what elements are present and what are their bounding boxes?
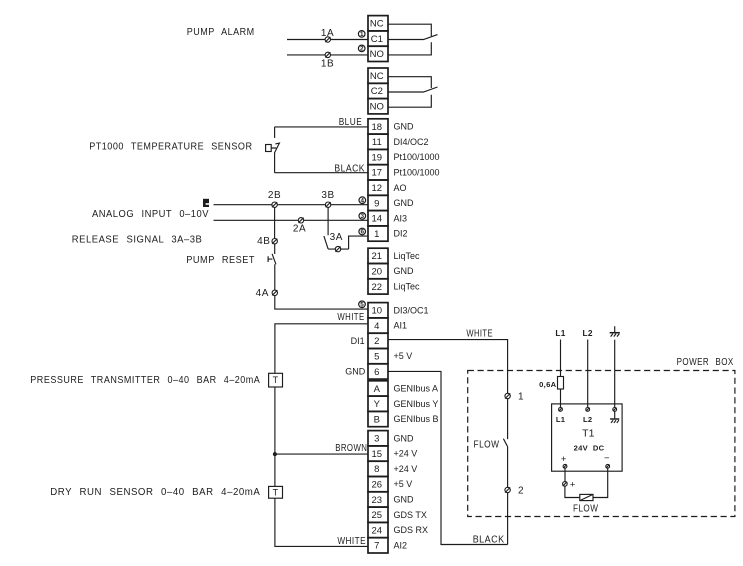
wire start marker [203, 199, 209, 207]
svg-text:4A: 4A [256, 288, 269, 299]
supply earth line [614, 340, 616, 408]
wire - to flow coil [593, 468, 608, 497]
svg-text:3: 3 [374, 434, 379, 445]
svg-text:AI1: AI1 [394, 321, 408, 331]
transformer T1 box [552, 404, 623, 471]
svg-text:20: 20 [372, 266, 383, 277]
svg-text:PUMP ALARM: PUMP ALARM [187, 27, 255, 38]
pin circle 5 [359, 301, 366, 308]
svg-text:GDS TX: GDS TX [394, 510, 427, 520]
svg-text:2A: 2A [293, 223, 306, 234]
svg-text:RELEASE SIGNAL 3A–3B: RELEASE SIGNAL 3A–3B [72, 234, 203, 245]
svg-text:AI3: AI3 [394, 213, 408, 223]
wire WHITE to terminal 7 [275, 498, 368, 546]
svg-text:+: + [570, 480, 576, 491]
svg-text:BLACK: BLACK [473, 535, 505, 546]
svg-text:GND: GND [394, 495, 415, 505]
pin circle 2 [358, 45, 365, 52]
temperature sensor contact [271, 127, 279, 173]
terminal block blockD [368, 381, 388, 427]
svg-text:1: 1 [360, 31, 364, 38]
svg-text:GND: GND [394, 122, 415, 132]
svg-text:21: 21 [372, 251, 383, 262]
junction dot [273, 452, 277, 456]
fuse 0,6A [558, 377, 564, 390]
svg-text:23: 23 [372, 495, 383, 506]
svg-text:4: 4 [374, 321, 379, 332]
wire + to flow coil [564, 468, 566, 481]
terminal block blockE [368, 431, 388, 553]
svg-text:24: 24 [372, 525, 383, 536]
svg-text:PT1000 TEMPERATURE SENSOR: PT1000 TEMPERATURE SENSOR [89, 141, 252, 152]
svg-text:C1: C1 [371, 34, 383, 45]
svg-text:FLOW: FLOW [474, 439, 500, 450]
svg-text:PUMP RESET: PUMP RESET [186, 255, 255, 266]
svg-text:LiqTec: LiqTec [394, 251, 421, 261]
svg-text:FLOW: FLOW [573, 503, 598, 514]
svg-text:BROWN: BROWN [335, 443, 367, 454]
svg-text:L1: L1 [555, 328, 565, 338]
flow sensor coil [580, 494, 593, 500]
svg-text:Pt100/1000: Pt100/1000 [394, 152, 440, 162]
svg-text:0,6A: 0,6A [539, 380, 556, 389]
svg-text:LiqTec: LiqTec [394, 282, 421, 292]
svg-text:2: 2 [374, 336, 379, 347]
supply L2 line [587, 340, 589, 408]
svg-text:9: 9 [374, 198, 379, 209]
connector 3B [325, 202, 330, 207]
wire BLACK terminal 6 loop [388, 371, 508, 544]
svg-text:2: 2 [518, 486, 524, 497]
svg-text:POWER BOX: POWER BOX [677, 357, 734, 368]
svg-text:14: 14 [372, 214, 383, 225]
svg-text:DRY RUN SENSOR 0–40 BAR 4–20mA: DRY RUN SENSOR 0–40 BAR 4–20mA [50, 487, 260, 498]
T1 input terminal L1 [559, 408, 563, 412]
svg-text:11: 11 [372, 137, 382, 148]
svg-text:GND: GND [345, 367, 366, 377]
svg-text:−: − [604, 453, 610, 464]
svg-text:NO: NO [370, 49, 384, 60]
connector 4B [272, 239, 277, 244]
svg-text:25: 25 [372, 510, 383, 521]
wire BLACK to 17 [275, 172, 368, 174]
svg-text:WHITE: WHITE [337, 536, 366, 547]
wire 2A to terminal 14 [214, 219, 369, 221]
wire WHITE to terminal 4 [275, 324, 368, 374]
svg-text:1A: 1A [321, 28, 334, 39]
svg-text:NC: NC [370, 71, 384, 82]
svg-text:BLUE: BLUE [339, 117, 363, 128]
svg-text:GENIbus A: GENIbus A [394, 384, 439, 394]
terminal block relay2 [368, 68, 388, 114]
relay contact K1 right side [388, 24, 438, 55]
svg-text:GDS RX: GDS RX [394, 525, 429, 535]
pin circle 3 [359, 213, 366, 220]
terminal block blockB [368, 248, 388, 294]
terminal block relay1 [368, 16, 388, 62]
svg-text:8: 8 [374, 464, 379, 475]
connector 2 (flow) [505, 487, 510, 492]
dry run sensor T box [269, 486, 283, 498]
svg-text:PRESSURE TRANSMITTER 0–40 BAR: PRESSURE TRANSMITTER 0–40 BAR 4–20mA [30, 375, 260, 386]
transmitter T1 box [269, 373, 283, 387]
svg-text:GND: GND [394, 266, 415, 276]
svg-text:26: 26 [372, 479, 383, 490]
svg-text:AI2: AI2 [394, 541, 408, 551]
svg-text:3A: 3A [330, 232, 343, 243]
wire WHITE terminal 2 to flow switch [388, 340, 508, 394]
supply earth symbol [611, 326, 620, 336]
svg-text:DI3/OC1: DI3/OC1 [394, 305, 429, 315]
svg-text:5: 5 [360, 302, 364, 309]
svg-text:1: 1 [518, 392, 524, 403]
svg-text:ANALOG INPUT 0–10V: ANALOG INPUT 0–10V [92, 209, 209, 220]
svg-text:4: 4 [361, 197, 365, 204]
release signal switch 3A [324, 207, 368, 249]
svg-text:NO: NO [370, 102, 384, 113]
svg-text:17: 17 [372, 168, 383, 179]
svg-text:6: 6 [360, 229, 364, 236]
svg-text:Pt100/1000: Pt100/1000 [394, 167, 440, 177]
relay contact K2 right side [388, 77, 438, 108]
connector 1B [325, 52, 330, 57]
connector 1 (flow) [505, 393, 510, 398]
svg-text:3B: 3B [321, 190, 334, 201]
power box dashed outline [468, 371, 735, 517]
svg-text:WHITE: WHITE [337, 312, 364, 323]
terminal block blockA [368, 119, 388, 241]
svg-text:19: 19 [372, 152, 383, 163]
svg-text:10: 10 [372, 306, 383, 317]
wire BLUE to 18 [275, 126, 368, 128]
svg-text:GND: GND [394, 433, 415, 443]
svg-text:DI4/OC2: DI4/OC2 [394, 137, 429, 147]
svg-text:2: 2 [360, 46, 364, 53]
wire flow switch down [507, 493, 509, 545]
connector + [563, 482, 568, 487]
svg-text:T: T [273, 375, 279, 385]
flow switch contact [503, 399, 507, 488]
pin circle 4 [359, 197, 366, 204]
svg-text:T1: T1 [582, 428, 594, 440]
svg-text:GENIbus Y: GENIbus Y [394, 399, 439, 409]
svg-text:DI2: DI2 [394, 229, 408, 239]
svg-text:+5 V: +5 V [394, 351, 413, 361]
pin circle 1 [358, 31, 365, 38]
svg-text:+24 V: +24 V [394, 464, 418, 474]
svg-text:AO: AO [394, 183, 407, 193]
svg-text:L1: L1 [556, 415, 566, 424]
wire T down [274, 387, 276, 486]
connector 2A [298, 218, 303, 223]
svg-text:B: B [374, 414, 380, 425]
wire 1B [287, 54, 368, 56]
pump reset switch [268, 244, 276, 290]
svg-text:+5 V: +5 V [394, 479, 413, 489]
supply L1 line with fuse [560, 340, 562, 408]
T1 input terminal L2 [586, 408, 590, 412]
svg-text:+24 V: +24 V [394, 449, 418, 459]
svg-text:1: 1 [374, 229, 379, 240]
wire BROWN to terminal 15 [275, 453, 368, 455]
svg-text:Y: Y [374, 399, 381, 410]
T1 earth terminal [613, 408, 617, 412]
svg-text:A: A [374, 384, 381, 395]
svg-text:BLACK: BLACK [334, 163, 365, 174]
connector 3A [335, 246, 340, 251]
svg-text:2B: 2B [268, 190, 281, 201]
connector 1A [325, 37, 330, 42]
svg-text:22: 22 [372, 282, 383, 293]
svg-text:GND: GND [394, 198, 415, 208]
svg-text:5: 5 [374, 351, 379, 362]
svg-text:15: 15 [372, 449, 383, 460]
svg-text:+: + [561, 454, 567, 465]
terminal block blockC [368, 303, 388, 379]
svg-text:C2: C2 [371, 86, 383, 97]
svg-text:L2: L2 [583, 328, 593, 338]
connector 2B [272, 202, 277, 207]
pin circle 6 [359, 228, 366, 235]
svg-text:7: 7 [374, 541, 379, 552]
svg-text:1B: 1B [321, 59, 334, 70]
svg-text:4B: 4B [257, 236, 270, 247]
svg-text:WHITE: WHITE [466, 329, 493, 340]
connector 4A [272, 290, 277, 295]
svg-text:T: T [273, 488, 279, 498]
wire 2B down / 4B [274, 207, 276, 238]
svg-text:12: 12 [372, 183, 383, 194]
svg-text:GENIbus B: GENIbus B [394, 414, 439, 424]
svg-text:L2: L2 [583, 415, 592, 424]
svg-text:3: 3 [361, 213, 365, 220]
svg-text:24V DC: 24V DC [574, 443, 605, 452]
svg-text:DI1: DI1 [351, 336, 365, 346]
svg-text:6: 6 [374, 367, 379, 378]
svg-text:NC: NC [370, 19, 384, 30]
svg-text:18: 18 [372, 122, 383, 133]
wire 2B/3B to terminal 9 [214, 204, 369, 206]
wire 4A to terminal 10 [275, 296, 368, 310]
wire 1A [287, 39, 368, 41]
